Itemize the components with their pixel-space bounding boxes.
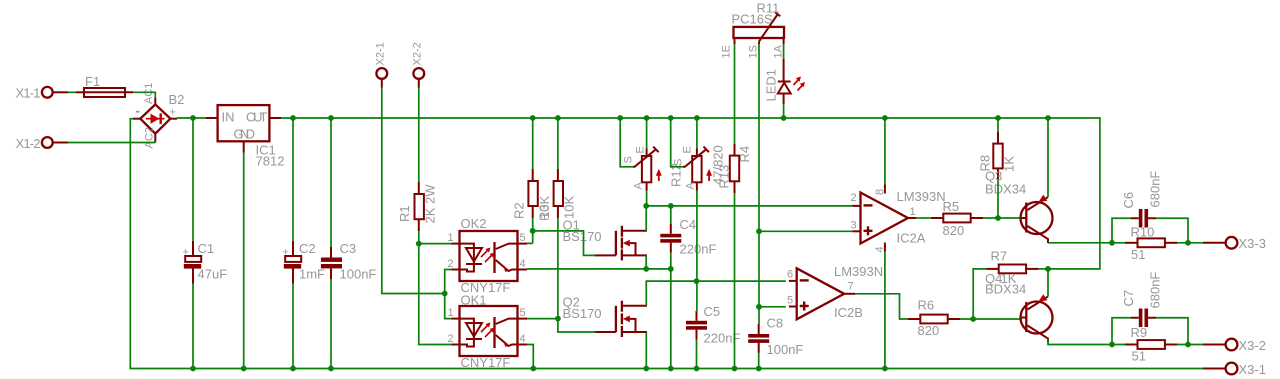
capacitor C7 680nF [1121, 272, 1163, 327]
wire trimmer2 S riser [671, 118, 683, 167]
wire OK1 pin4 down to bus [527, 345, 533, 369]
svg-text:5: 5 [520, 232, 526, 244]
svg-text:LM393N: LM393N [834, 264, 883, 279]
wire R7 left to R6 node [973, 269, 986, 319]
wire X3-3 row right [1177, 242, 1203, 244]
junction dots on GND bus [190, 366, 888, 372]
svg-text:BDX34: BDX34 [985, 182, 1026, 197]
wire trimmer1 E to rail [646, 118, 648, 149]
wire C4 top to node row [670, 206, 672, 224]
wire C3 branch [330, 118, 332, 369]
wire R2 bottom to OK2 pin5 [527, 218, 533, 243]
wire Q1 drain up to node [645, 206, 647, 231]
wire trimmer1 S to rail [620, 118, 633, 167]
transistor Q4 BDX34 [985, 271, 1053, 343]
trimmer potentiometer (left) [623, 146, 662, 190]
svg-text:+: + [170, 107, 176, 119]
svg-text:C3: C3 [340, 241, 357, 256]
wire R5 to Q3 base node [983, 217, 1019, 219]
resistor R9 51 [1125, 325, 1177, 364]
svg-text:R5: R5 [943, 199, 960, 214]
svg-text:C7: C7 [1121, 290, 1136, 307]
svg-text:X1-2: X1-2 [16, 136, 41, 151]
svg-text:BS170: BS170 [563, 306, 602, 321]
resistor R10 51 [1125, 225, 1177, 263]
wire Q2 drain riser and IC2B pin6 row [646, 281, 786, 306]
svg-text:R4: R4 [737, 146, 752, 163]
capacitor C6 680nF [1121, 171, 1163, 228]
connector pin X1-2 [16, 136, 69, 151]
svg-text:R6: R6 [918, 298, 935, 313]
svg-text:+: + [183, 247, 189, 259]
svg-text:51: 51 [1131, 247, 1145, 262]
wire C4 bottom down to bus [670, 253, 672, 369]
wire R1 to node A (OK2 pin1) [419, 231, 452, 243]
wire comparator input row to IC2A pin2 [646, 205, 852, 207]
svg-text:LED1: LED1 [764, 69, 779, 102]
svg-text:X2-2: X2-2 [412, 42, 424, 65]
svg-text:820: 820 [943, 223, 965, 238]
capacitor C1 47uF (polarized) [183, 241, 228, 284]
svg-text:7: 7 [848, 281, 854, 293]
svg-text:C8: C8 [767, 316, 784, 331]
wire OK2 pin2 riser to OK1 pin1 [445, 270, 452, 319]
wire bridge minus down and GND bus to X3-1 [130, 119, 1203, 369]
svg-text:F1: F1 [85, 74, 100, 89]
svg-text:1S: 1S [748, 45, 760, 58]
wire C6 left riser [1112, 218, 1131, 243]
resistor R8 1K [978, 132, 1017, 181]
wire wiper node to IC2B pin5 [759, 306, 786, 308]
svg-text:OK1: OK1 [461, 293, 487, 308]
svg-text:4: 4 [520, 333, 526, 345]
connector pin X3-1 [1203, 362, 1266, 377]
wire IC2A output to R5 [916, 217, 931, 219]
svg-text:A: A [633, 182, 645, 190]
wire R3 top to rail [557, 118, 559, 169]
resistor R3 10K [537, 169, 577, 221]
wire pot 1A to LED1 [783, 44, 785, 59]
svg-text:IN: IN [222, 110, 235, 125]
transistor Q2 BS170 [563, 295, 648, 338]
wire Q4 emitter to supply node [1047, 269, 1049, 297]
svg-text:A: A [685, 182, 697, 190]
svg-text:5: 5 [787, 295, 793, 307]
wire R2 top to rail [532, 118, 534, 169]
wire trimmer2 A down to C5 node [696, 191, 698, 311]
wire R3 bottom through OK1 pin5 node to Q2 gate [527, 218, 596, 332]
junction dots mid-circuit nodes [416, 203, 1191, 347]
resistor R7 1K [986, 249, 1038, 287]
wire Q3 emitter to rail [1047, 118, 1049, 197]
wire C7 right riser [1156, 318, 1188, 345]
potentiometer R11 PC16S [721, 1, 785, 59]
transistor Q3 BDX34 [985, 169, 1053, 244]
trimmer potentiometer R12 [669, 146, 713, 190]
resistor R4 47/820 [711, 144, 753, 194]
svg-text:2: 2 [448, 258, 454, 270]
wire IC2A pin4 to bus [884, 252, 886, 369]
svg-text:4: 4 [520, 258, 526, 270]
svg-text:R13: R13 [717, 165, 732, 189]
svg-text:680nF: 680nF [1148, 272, 1163, 309]
svg-text:C1: C1 [198, 241, 215, 256]
wire wiper node to IC2A pin3 [759, 230, 853, 232]
resistor R5 820 [931, 199, 983, 238]
svg-text:R2: R2 [512, 202, 527, 219]
wire F1 to bridge AC1 [133, 92, 155, 97]
wire Q4 collector to X3-2 row [1048, 339, 1125, 345]
svg-text:1: 1 [448, 307, 454, 319]
wire trimmer1 A to node row [646, 191, 648, 206]
wire R6 to node and Q4 base [960, 318, 1019, 320]
svg-text:OUT: OUT [246, 110, 268, 125]
svg-text:2K 2W: 2K 2W [423, 184, 438, 224]
svg-text:1E: 1E [721, 45, 733, 58]
wire +12V rail from IC1 OUT with right-end drop [281, 118, 1100, 269]
svg-text:100nF: 100nF [340, 267, 377, 282]
capacitor C4 220nF [660, 217, 716, 257]
wire Q1 source down to node [645, 255, 647, 269]
svg-text:C4: C4 [680, 217, 697, 232]
svg-text:C6: C6 [1121, 192, 1136, 209]
wire node A down to OK1 pin2 [419, 244, 452, 345]
svg-text:5: 5 [520, 307, 526, 319]
svg-text:X3-1: X3-1 [1239, 362, 1266, 377]
wire Q2 source down to bus [645, 332, 647, 369]
svg-text:AC1: AC1 [143, 83, 155, 104]
svg-text:BDX34: BDX34 [985, 282, 1026, 297]
wire X3-2 row right [1177, 344, 1203, 346]
wire Q1 gate line [533, 231, 596, 256]
transistor Q1 BS170 [563, 218, 648, 261]
connector pin X3-2 [1203, 338, 1266, 353]
svg-text:680nF: 680nF [1148, 171, 1163, 208]
svg-text:8: 8 [874, 189, 886, 195]
svg-text:X1-1: X1-1 [16, 86, 41, 101]
wire pot wiper 1S down to C8 [758, 44, 760, 324]
svg-text:6: 6 [787, 269, 793, 281]
resistor R1 2K 2W [397, 182, 438, 231]
wire Q3 collector X3-3 row left [1048, 242, 1125, 244]
svg-text:1: 1 [910, 206, 916, 218]
wire bridge plus to IC1 IN [177, 117, 206, 119]
wire R8 top to rail [997, 118, 999, 132]
svg-text:2: 2 [448, 333, 454, 345]
op-amp IC2B LM393N [787, 264, 883, 320]
svg-text:E: E [682, 146, 694, 153]
connector pin X2-1 [375, 42, 388, 88]
svg-text:1mF: 1mF [299, 267, 325, 282]
wire IC1 GND down to bus [243, 153, 245, 369]
capacitor C5 220nF [686, 304, 740, 346]
svg-text:X3-2: X3-2 [1239, 338, 1266, 353]
wire LED1 to rail [783, 104, 785, 118]
wire R4 bottom to bus [734, 193, 736, 368]
resistor R6 820 [908, 298, 960, 339]
wire C8 bottom to bus [758, 353, 760, 369]
wire R8 bottom to base node [997, 180, 999, 218]
capacitor C8 100nF [748, 316, 803, 358]
svg-text:X3-3: X3-3 [1239, 236, 1266, 251]
svg-text:B2: B2 [169, 92, 185, 107]
svg-text:47uF: 47uF [198, 267, 228, 282]
wire C7 left riser [1112, 318, 1131, 345]
svg-text:OK2: OK2 [461, 216, 487, 231]
wire X1-2 to bridge AC2 [68, 142, 155, 144]
svg-text:7812: 7812 [256, 154, 285, 169]
svg-text:220nF: 220nF [680, 242, 717, 257]
wire R7 right to supply node [1039, 268, 1050, 270]
bridge rectifier B2 [133, 83, 184, 149]
svg-text:AC2: AC2 [144, 127, 156, 148]
svg-text:C2: C2 [299, 241, 316, 256]
capacitor C3 100nF [321, 241, 377, 282]
svg-text:1K: 1K [1002, 156, 1017, 172]
svg-text:R3: R3 [537, 204, 552, 221]
svg-text:1A: 1A [773, 44, 785, 58]
connector pin X1-1 [16, 86, 69, 101]
LED LED1 [764, 59, 806, 104]
fuse F1 [76, 74, 133, 97]
svg-text:X2-1: X2-1 [375, 42, 387, 65]
svg-text:820: 820 [918, 323, 940, 338]
svg-text:GND: GND [234, 127, 256, 142]
connector pin X3-3 [1203, 236, 1266, 251]
svg-text:S: S [623, 156, 635, 163]
wire X2-1 down to OK1 pin1 riser [382, 87, 445, 294]
svg-text:100nF: 100nF [767, 342, 804, 357]
resistor R2 10K [512, 169, 553, 219]
svg-text:3: 3 [851, 220, 857, 232]
svg-text:51: 51 [1132, 349, 1146, 364]
op-amp IC2A LM393N [851, 185, 946, 253]
wire C1 branch [192, 118, 194, 369]
wire OK2 pin4 row to Q1 source / C4 node [527, 268, 671, 270]
wire C2 branch [292, 118, 294, 369]
wire C5 bottom to bus [696, 340, 698, 369]
svg-text:2: 2 [851, 192, 857, 204]
connector pin X2-2 [412, 42, 425, 88]
svg-text:R9: R9 [1131, 325, 1148, 340]
capacitor C2 1mF (polarized) [283, 241, 326, 284]
svg-text:IC2A: IC2A [897, 231, 926, 246]
wire R4 top to pot 1E [734, 44, 736, 143]
svg-text:R1: R1 [397, 205, 412, 222]
svg-text:PC16S: PC16S [732, 12, 774, 27]
svg-text:IC2B: IC2B [834, 305, 863, 320]
svg-text:1: 1 [448, 232, 454, 244]
wire IC2B output to R6 [855, 294, 908, 319]
junction dots on +12V rail [190, 115, 1051, 121]
wire X1-1 to F1 [68, 91, 76, 93]
svg-text:R7: R7 [991, 249, 1008, 264]
svg-text:E: E [635, 146, 647, 153]
svg-text:C5: C5 [704, 304, 721, 319]
wire IC2A pin8 to rail [884, 118, 886, 185]
svg-text:10K: 10K [562, 196, 577, 219]
svg-text:LM393N: LM393N [897, 189, 946, 204]
svg-text:R10: R10 [1131, 225, 1155, 240]
svg-text:+: + [283, 247, 289, 259]
wire C6 right riser [1156, 218, 1188, 243]
optocoupler OK1 CNY17F [448, 293, 528, 371]
optocoupler OK2 CNY17F [448, 216, 528, 295]
wire trimmer2 E to rail [696, 118, 698, 149]
voltage regulator IC1 7812 [206, 105, 284, 168]
wire X2-2 down to R1 [418, 87, 420, 182]
